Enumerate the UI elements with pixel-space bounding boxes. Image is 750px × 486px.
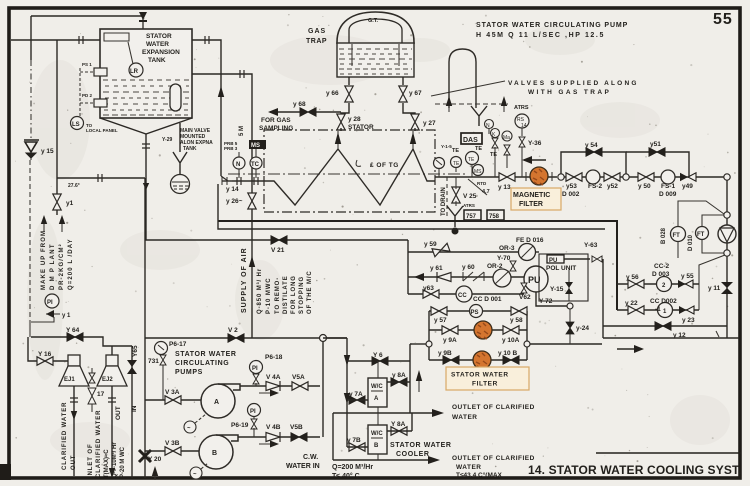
valve y59	[432, 243, 450, 256]
arrow down on tank drain	[143, 183, 149, 190]
wire PI bracket	[31, 317, 54, 322]
svg-text:C.W.: C.W.	[303, 454, 318, 461]
gas trap dome	[337, 12, 414, 44]
wire y22 row	[617, 309, 699, 311]
valve 731	[160, 355, 166, 365]
valve y9A	[442, 326, 458, 334]
valve Y65	[127, 346, 137, 478]
svg-text:Y-15: Y-15	[550, 286, 564, 293]
squiggle leader	[356, 160, 361, 166]
svg-text:B: B	[212, 450, 217, 457]
svg-text:y 55: y 55	[681, 273, 694, 280]
svg-text:Y-63: Y-63	[584, 242, 598, 249]
svg-text:CLARIFIED WATER: CLARIFIED WATER	[96, 410, 102, 478]
arrow flow left above filter	[522, 156, 546, 164]
svg-text:OUTLET OF CLARIFIED: OUTLET OF CLARIFIED	[452, 404, 535, 411]
svg-text:TO DRAIN: TO DRAIN	[441, 187, 447, 216]
wire EJ2 tail	[111, 386, 113, 476]
arrow EJ1 tail	[71, 411, 77, 420]
svg-text:FT: FT	[673, 233, 681, 239]
DAS box	[461, 133, 482, 144]
instrument ATRS RS14	[515, 114, 529, 129]
valve Y-70	[510, 261, 516, 271]
svg-text:T≤ 40° C: T≤ 40° C	[332, 472, 360, 480]
valve y63b	[423, 290, 439, 298]
gas trap inner tube	[349, 19, 402, 44]
filter F1	[474, 321, 492, 339]
wire PI B stem	[253, 417, 255, 437]
valve y60	[463, 272, 484, 281]
svg-text:MAGNETIC: MAGNETIC	[513, 192, 550, 199]
svg-text:y 27: y 27	[423, 120, 436, 127]
instrument TE big	[466, 152, 479, 178]
wire HX inlet	[222, 180, 232, 182]
instrument small a	[485, 120, 494, 135]
svg-text:TRAP: TRAP	[306, 38, 327, 45]
svg-text:FOR GAS: FOR GAS	[261, 117, 291, 124]
wire lower header y2	[145, 337, 347, 339]
valve V21	[271, 236, 287, 244]
svg-text:ATRS: ATRS	[514, 105, 529, 111]
arrow up on tank riser	[218, 86, 224, 97]
vent funnel	[471, 106, 487, 126]
svg-text:V 4B: V 4B	[266, 424, 281, 431]
inter-ejector valve a	[89, 373, 95, 383]
wire outer rail	[218, 221, 617, 310]
svg-text:T(MAX)≈C: T(MAX)≈C	[104, 449, 110, 478]
svg-text:GAS: GAS	[308, 28, 326, 35]
flow switch FS-2	[586, 170, 600, 184]
arrow up below y20	[152, 466, 158, 480]
instrument TC	[250, 149, 262, 178]
node right	[524, 341, 530, 347]
svg-text:W/C: W/C	[371, 384, 383, 390]
svg-text:PRB 3: PRB 3	[224, 146, 238, 151]
svg-text:y 10A: y 10A	[502, 337, 520, 344]
clarified water out text	[62, 402, 77, 470]
svg-text:y 7A: y 7A	[349, 391, 363, 398]
valve y10B	[503, 356, 519, 364]
filter F2	[473, 351, 491, 369]
svg-text:TE: TE	[468, 157, 475, 163]
svg-text:WATER: WATER	[452, 414, 478, 421]
wire suction header	[144, 178, 146, 478]
wire left stub	[412, 343, 426, 345]
wire WC B top stem	[377, 413, 379, 425]
valve y68	[300, 108, 316, 116]
svg-text:Y-70: Y-70	[497, 255, 511, 262]
leader line	[431, 81, 505, 96]
wire row 1	[408, 251, 518, 253]
svg-text:H 45M Q 11 L/SEC ,HP 12.5: H 45M Q 11 L/SEC ,HP 12.5	[476, 32, 605, 39]
cell CC D002	[658, 303, 673, 318]
svg-text:V5A: V5A	[292, 374, 305, 381]
svg-text:~: ~	[193, 472, 197, 478]
instrument small c	[502, 131, 512, 141]
svg-text:SUPPLY OF AIR: SUPPLY OF AIR	[241, 247, 248, 313]
TO DRAIN dashed drop	[446, 177, 448, 218]
svg-text:4,7: 4,7	[482, 189, 490, 195]
wire tank right top pipe	[192, 40, 221, 176]
svg-text:P-10 MWC: P-10 MWC	[266, 277, 272, 314]
gauge PI-b	[451, 157, 462, 173]
svg-text:Q=200 L /DAY: Q=200 L /DAY	[68, 238, 74, 290]
svg-text:OUTLET OF CLARIFIED: OUTLET OF CLARIFIED	[452, 455, 535, 462]
valve V62	[521, 283, 527, 293]
svg-text:P-20 M WC: P-20 M WC	[120, 446, 126, 478]
nozzle lower	[94, 99, 107, 107]
svg-text:y51: y51	[650, 141, 661, 148]
valve V3A	[165, 396, 181, 404]
valve y26	[248, 193, 256, 209]
unit enclosure	[539, 254, 588, 301]
valve V5A	[292, 382, 308, 390]
arrow marker under PI	[46, 310, 71, 319]
wire top feed line	[31, 15, 143, 17]
svg-text:A: A	[374, 396, 379, 402]
wire mid rail	[429, 329, 527, 331]
wire trap left outlet	[341, 77, 349, 116]
svg-text:V 25: V 25	[463, 193, 477, 200]
arrow EJ2 tail	[109, 468, 115, 478]
valve y49	[680, 173, 696, 181]
svg-text:FILTER: FILTER	[519, 201, 543, 208]
gauge PI-a	[434, 158, 445, 178]
svg-text:STATOR WATER CIRCULATING PUMP: STATOR WATER CIRCULATING PUMP	[476, 22, 628, 29]
drain pot with level	[171, 175, 190, 194]
svg-text:PUMPS: PUMPS	[175, 369, 203, 376]
nozzle upper	[94, 68, 107, 76]
svg-text:MS: MS	[251, 143, 260, 149]
svg-text:EJ1: EJ1	[64, 377, 75, 383]
wire trap right outlet	[403, 77, 415, 116]
svg-text:TE: TE	[453, 161, 460, 167]
wire row 2	[408, 276, 525, 278]
svg-text:Y 8A: Y 8A	[391, 421, 406, 428]
valve y50	[638, 173, 654, 181]
svg-text:y49: y49	[682, 183, 693, 190]
svg-text:Y-36: Y-36	[528, 140, 542, 147]
wire y64 header	[31, 337, 132, 346]
svg-text:CIRCULATING: CIRCULATING	[175, 360, 229, 367]
flange EJ1 tail	[70, 398, 78, 402]
svg-text:FT: FT	[697, 232, 705, 238]
drain from tank funnel	[145, 134, 147, 240]
svg-text:y 9A: y 9A	[443, 337, 457, 344]
svg-text:LOCAL PANEL: LOCAL PANEL	[86, 128, 118, 133]
arrow vent left	[446, 96, 452, 112]
valve y23	[679, 306, 694, 314]
svg-text:y 15: y 15	[41, 148, 54, 155]
svg-text:PI: PI	[250, 409, 256, 415]
wire V6 line	[347, 360, 410, 362]
flow switch FS-1	[661, 170, 675, 184]
valve Y-36	[519, 137, 525, 147]
svg-text:757: 757	[466, 214, 477, 220]
gauge PI A	[250, 361, 263, 374]
wire pump A discharge	[240, 385, 320, 387]
svg-text:V 4A: V 4A	[266, 374, 281, 381]
wire y56 row	[617, 283, 699, 285]
tank funnel bottom	[100, 118, 192, 134]
svg-text:y52: y52	[607, 183, 618, 190]
valve y7A	[349, 396, 365, 404]
drain funnel Y-29	[173, 123, 187, 175]
svg-text:y 9B: y 9B	[438, 350, 452, 357]
wire row1 to unit	[535, 251, 539, 253]
svg-text:TE: TE	[475, 146, 482, 152]
svg-text:Y 6: Y 6	[373, 352, 383, 359]
svg-text:Y 16: Y 16	[38, 351, 52, 358]
wire right stub	[530, 343, 602, 345]
svg-text:STATOR: STATOR	[146, 33, 172, 40]
svg-text:COOLER: COOLER	[396, 451, 430, 458]
svg-text:y 23: y 23	[682, 317, 695, 324]
wire makeup header	[57, 177, 145, 179]
flange on tank drain	[142, 144, 150, 148]
svg-text:5 M: 5 M	[239, 126, 245, 136]
svg-text:P6-19: P6-19	[231, 422, 249, 429]
wire tank left inlet	[11, 39, 100, 41]
wire WC B bottom stem	[377, 454, 379, 460]
svg-text:y 11: y 11	[708, 285, 721, 292]
wire main line to right	[564, 176, 727, 178]
wire y27 drop	[414, 128, 416, 131]
instrument small b	[491, 129, 500, 139]
flange on tank inlet	[79, 36, 83, 44]
junction dot on drain header	[452, 228, 459, 235]
wire makeup tie riser	[56, 40, 58, 178]
arrow up cooler	[416, 370, 422, 392]
svg-text:y 57: y 57	[434, 317, 447, 324]
drain funnel under V25	[447, 206, 463, 227]
ejector EJ2	[97, 355, 127, 386]
node left	[426, 341, 432, 347]
valve Y6	[372, 357, 388, 365]
wire small stems	[495, 147, 507, 177]
flange on right top pipe	[205, 36, 209, 44]
wire FT1 branch	[678, 201, 724, 227]
valve y7B	[349, 443, 365, 451]
svg-text:A: A	[214, 399, 219, 406]
inter-ejector valve b	[88, 388, 96, 404]
valve y28	[337, 114, 345, 130]
vent stack arch	[449, 49, 476, 108]
valve y10A	[503, 326, 519, 334]
svg-text:OR-3: OR-3	[499, 245, 515, 252]
svg-text:EJ2: EJ2	[102, 377, 113, 383]
node a	[724, 212, 730, 218]
main valve note	[162, 128, 213, 152]
wire bottom rail	[429, 359, 527, 361]
TG boundary dash-dot box	[264, 130, 435, 212]
DAS black tag	[249, 140, 266, 149]
wire y28 drop	[340, 128, 342, 131]
wire FT2 branch	[702, 215, 724, 226]
wire y8B stub	[387, 413, 412, 431]
node mid	[623, 174, 629, 180]
svg-text:14. STATOR WATER COOLING SYST.: 14. STATOR WATER COOLING SYST.	[528, 463, 742, 477]
water hatching in trap	[339, 49, 412, 74]
wire lower header right	[603, 337, 739, 339]
svg-text:PU: PU	[549, 258, 557, 264]
junction flanges on inlet	[237, 177, 241, 185]
arrow gas sampling	[268, 108, 300, 116]
svg-text:Y-1-5: Y-1-5	[441, 144, 452, 149]
svg-text:TANK: TANK	[148, 57, 166, 64]
wire pump B discharge	[238, 436, 320, 438]
check valve V4B	[266, 432, 280, 442]
svg-text:y 66: y 66	[326, 90, 339, 97]
pump B	[199, 435, 238, 469]
svg-text:B 028: B 028	[661, 227, 667, 244]
svg-text:y 56: y 56	[626, 274, 639, 281]
svg-text:y 1: y 1	[62, 313, 71, 319]
valve y57	[431, 307, 447, 315]
valve y8B	[391, 427, 407, 435]
svg-text:y 12: y 12	[673, 332, 686, 339]
wire cooler right riser	[410, 344, 412, 413]
wire y12 row	[603, 325, 727, 327]
valve V25	[452, 187, 460, 203]
cell CC-2 D003	[657, 277, 672, 292]
supply of air arrow	[249, 240, 255, 308]
svg-text:FE D 016: FE D 016	[516, 237, 544, 244]
svg-text:Y-29: Y-29	[162, 137, 173, 143]
flange EJ2 tail	[108, 398, 116, 402]
svg-text:FS-1: FS-1	[661, 183, 675, 190]
valve y56	[628, 280, 644, 288]
makeup line valve y1	[53, 194, 61, 210]
wire riser from bus	[407, 240, 409, 294]
svg-text:STATOR WATER: STATOR WATER	[390, 442, 452, 449]
svg-text:WATER: WATER	[456, 464, 482, 471]
instrument N	[233, 152, 245, 178]
bypass loop 2	[626, 152, 689, 177]
svg-text:RTD: RTD	[477, 181, 487, 186]
bypass loop 1	[561, 152, 626, 174]
wire y64 left riser	[29, 322, 31, 337]
wire pump B suction	[145, 450, 199, 452]
svg-text:W/C: W/C	[371, 431, 383, 437]
wire outlet line 1	[333, 409, 444, 417]
makeup source text	[41, 230, 74, 290]
valve y52	[604, 173, 620, 181]
svg-text:CC D 001: CC D 001	[473, 296, 502, 303]
wire top rail	[429, 310, 527, 312]
svg-text:Y 64: Y 64	[66, 327, 80, 334]
wire left riser to relief	[30, 16, 32, 60]
cooler WC A	[368, 378, 387, 407]
svg-text:PD 2: PD 2	[82, 93, 93, 98]
wire ATRS stem	[521, 128, 523, 136]
valve y66	[345, 86, 353, 102]
svg-text:y 8A: y 8A	[392, 372, 406, 379]
svg-text:y 59: y 59	[424, 241, 437, 248]
svg-text:Y65: Y65	[132, 345, 139, 357]
svg-text:y 60: y 60	[462, 264, 475, 271]
pressure switch PS	[470, 305, 483, 318]
wire Y63 riser down	[602, 259, 604, 338]
svg-text:POL UNIT: POL UNIT	[546, 265, 576, 272]
svg-text:N: N	[236, 162, 240, 168]
title block line	[596, 452, 741, 454]
node after filter	[558, 174, 564, 180]
arrow flow B	[259, 441, 279, 448]
svg-text:PI: PI	[252, 366, 258, 372]
filter flanges	[526, 172, 552, 181]
relief valve y15	[24, 140, 39, 160]
tank STATOR WATER EXPANSION TANK shell	[100, 29, 192, 118]
svg-text:₤ OF TG: ₤ OF TG	[370, 162, 399, 169]
valve y67	[399, 86, 407, 102]
valve y8A	[391, 378, 407, 386]
svg-text:EXPANSION: EXPANSION	[142, 49, 180, 56]
air notes columns	[256, 268, 313, 314]
svg-text:y-24: y-24	[576, 325, 589, 332]
svg-text:y 54: y 54	[585, 142, 598, 149]
svg-text:P6-18: P6-18	[265, 354, 283, 361]
valve PI A root	[253, 374, 259, 384]
arrow into y14 line	[221, 176, 228, 181]
svg-text:Ma: Ma	[503, 135, 510, 141]
svg-text:TO REMO-: TO REMO-	[275, 277, 281, 314]
svg-text:Y-72: Y-72	[539, 298, 553, 305]
vent riser right peak	[410, 131, 416, 149]
svg-text:y 7B: y 7B	[347, 437, 361, 444]
valve y58	[511, 307, 527, 315]
wire dashed drop from y15	[29, 160, 31, 322]
svg-text:P6-17: P6-17	[169, 341, 187, 348]
wire right riser	[726, 180, 728, 338]
gas trap water box	[337, 43, 414, 77]
valve at tank top inlet	[139, 12, 147, 29]
ejector EJ1	[59, 355, 89, 386]
makeup arrows	[41, 215, 47, 224]
RTD leader	[468, 179, 490, 195]
wire FT2 tail	[702, 240, 724, 254]
wire y7B stub	[347, 446, 368, 448]
arrow flow right	[617, 345, 644, 353]
flange on makeup header	[98, 174, 102, 182]
motor A	[184, 414, 206, 433]
svg-text:V 3B: V 3B	[165, 440, 180, 447]
valve V5B	[291, 433, 307, 441]
tank label	[142, 33, 180, 64]
svg-text:y1: y1	[66, 200, 74, 207]
node b	[724, 250, 730, 256]
wire main bus	[145, 239, 408, 241]
svg-text:Y 20: Y 20	[148, 456, 162, 463]
wire node to cooler feed	[323, 338, 347, 447]
svg-text:OUT: OUT	[71, 455, 77, 470]
svg-text:27.6°: 27.6°	[68, 183, 80, 189]
arrow vent right	[501, 96, 507, 112]
svg-text:TC: TC	[251, 162, 260, 168]
wire outlet left drop	[332, 413, 334, 460]
svg-text:CC D002: CC D002	[650, 298, 677, 305]
wire PI A stem	[255, 374, 257, 386]
wire tank right overflow	[192, 74, 252, 338]
valve y14	[222, 177, 227, 185]
valve y20	[139, 450, 151, 462]
dashed vent header	[435, 103, 508, 105]
arrow down b	[344, 393, 350, 404]
svg-text:CC-2: CC-2	[654, 263, 670, 270]
vent riser left peak	[335, 131, 341, 149]
pump OR-2	[493, 269, 511, 287]
svg-text:y 26~: y 26~	[226, 198, 243, 205]
